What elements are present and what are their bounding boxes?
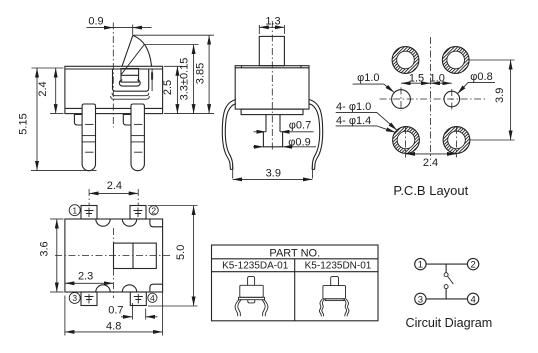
svg-text:3: 3 <box>72 293 77 303</box>
svg-text:4- φ1.0: 4- φ1.0 <box>336 101 371 113</box>
bottom view corner pieces <box>150 219 163 292</box>
dimension 0.9 <box>87 16 152 36</box>
pin 1 tab <box>74 115 82 126</box>
wire bottom stub <box>445 289 447 299</box>
bottom view pad 1 <box>81 206 97 220</box>
part table frame <box>212 245 379 321</box>
dimension 3.6 <box>39 219 64 292</box>
contact lower <box>444 285 448 289</box>
circuit node 4 <box>467 293 478 305</box>
bottom view pad 3 <box>81 292 97 306</box>
circled 1 <box>69 205 80 216</box>
dimension 1.3 <box>259 16 284 35</box>
svg-text:4: 4 <box>470 294 475 305</box>
label φ0.8 <box>457 71 495 94</box>
dimension 2.3 <box>65 271 114 284</box>
small hole right centerline <box>451 89 453 110</box>
lever <box>121 35 152 91</box>
dimension 2.4 <box>37 68 56 114</box>
bottom view bottom edge notches <box>96 285 137 292</box>
svg-text:1.0: 1.0 <box>430 72 445 84</box>
PCB ring 3 vertical centerline <box>405 127 407 158</box>
front view plunger <box>121 69 139 83</box>
extension line lever mid <box>144 44 199 46</box>
bottom view body <box>65 219 163 292</box>
circled 4 <box>148 293 157 303</box>
side view plunger <box>259 36 284 65</box>
side view body <box>235 66 309 109</box>
PCB small hole right φ0.8 <box>444 91 460 107</box>
svg-text:3: 3 <box>418 294 423 305</box>
svg-text:5.0: 5.0 <box>175 245 187 260</box>
svg-text:1.3: 1.3 <box>265 16 280 28</box>
svg-text:3.9: 3.9 <box>494 88 506 103</box>
svg-text:4- φ1.4: 4- φ1.4 <box>336 115 371 127</box>
svg-text:K5-1235DA-01: K5-1235DA-01 <box>222 261 289 272</box>
circled 3 <box>69 292 80 303</box>
dimension φ0.7 <box>254 120 314 132</box>
bottom view inner rect <box>114 243 157 268</box>
svg-text:2.4: 2.4 <box>423 157 438 169</box>
dimension φ0.9 <box>253 137 316 149</box>
front view body <box>65 66 163 113</box>
svg-text:2: 2 <box>470 260 475 271</box>
switch icon DA right leg <box>264 300 268 317</box>
svg-text:P.C.B Layout: P.C.B Layout <box>393 183 468 198</box>
switch lever arm <box>448 276 454 284</box>
PCB horizontal centerline <box>380 98 486 100</box>
dimension 5.0 <box>148 206 198 307</box>
dimension 3.85 <box>195 35 210 113</box>
side view right leg <box>309 100 323 170</box>
pin 2 tab <box>123 115 131 126</box>
extension line lever tip <box>134 34 215 36</box>
svg-text:2: 2 <box>151 206 156 216</box>
side view bottom post <box>263 115 282 147</box>
svg-text:2.3: 2.3 <box>78 271 93 283</box>
bottom view vertical centerline <box>112 228 114 298</box>
side view left leg <box>222 100 236 170</box>
dimension 0.7 <box>108 303 157 320</box>
circuit node 3 <box>415 293 426 305</box>
circuit node 1 <box>415 258 426 270</box>
PCB pad hole ring 2 <box>442 47 469 74</box>
switch icon DN right leg <box>346 299 349 317</box>
svg-text:3.9: 3.9 <box>266 168 281 180</box>
front view recess <box>111 69 150 99</box>
svg-text:0.9: 0.9 <box>88 16 103 28</box>
svg-text:0.7: 0.7 <box>108 304 123 316</box>
wire top stub <box>445 264 447 273</box>
svg-text:3.85: 3.85 <box>195 63 207 84</box>
PCB vertical centerline <box>430 37 432 160</box>
PCB pad hole ring 1 <box>392 47 419 74</box>
label φ1.0 <box>353 72 395 92</box>
pin 1 <box>82 104 95 171</box>
bottom view horizontal centerline <box>55 255 172 257</box>
PCB small hole left φ1.0 <box>392 90 411 109</box>
svg-text:2.5: 2.5 <box>162 80 174 95</box>
dimension 4.8 <box>65 292 163 336</box>
switch icon DA base <box>238 297 264 299</box>
contact upper <box>444 273 448 277</box>
switch icon DN left leg <box>319 299 322 317</box>
side view base plate <box>241 109 303 115</box>
dimension 1.5 <box>401 72 431 84</box>
switch icon DA left leg <box>235 300 239 317</box>
svg-text:4.8: 4.8 <box>106 321 121 333</box>
svg-text:1: 1 <box>418 260 423 271</box>
svg-text:5.15: 5.15 <box>18 113 30 134</box>
dimension 2.4 PCB <box>406 154 457 169</box>
dimension 3.9 PCB <box>469 60 515 140</box>
svg-text:φ0.7: φ0.7 <box>289 120 311 132</box>
label 4-φ1.4 <box>336 115 396 133</box>
dimension 5.15 <box>18 68 97 170</box>
switch icon DN body <box>323 286 346 299</box>
dimension 2.5 <box>162 66 214 113</box>
circuit node 2 <box>467 258 478 270</box>
label 4-φ1.0 <box>336 101 397 130</box>
svg-text:1.5: 1.5 <box>409 72 424 84</box>
bottom view pad 2 <box>130 206 146 220</box>
svg-text:3.3±0.15: 3.3±0.15 <box>179 58 191 101</box>
switch icon DN base <box>325 299 344 301</box>
switch icon DA body <box>240 285 263 297</box>
front view centerline <box>112 23 114 128</box>
circled 2 <box>149 206 158 216</box>
switch icon DN plunger <box>331 276 339 285</box>
svg-text:PART NO.: PART NO. <box>269 248 320 260</box>
svg-text:2.4: 2.4 <box>107 180 122 192</box>
switch icon DA plunger <box>248 276 255 285</box>
dimension 3.9 side view <box>233 165 313 180</box>
front view plunger slot <box>119 80 140 86</box>
svg-text:K5-1235DN-01: K5-1235DN-01 <box>305 261 372 272</box>
bottom view top edge notches <box>96 219 137 226</box>
wire 3-4 <box>426 298 467 300</box>
svg-text:Circuit Diagram: Circuit Diagram <box>406 316 493 330</box>
svg-text:1: 1 <box>72 205 77 215</box>
PCB pad hole ring 3 <box>393 127 420 154</box>
dimension 1.0 <box>430 72 452 84</box>
dimension 2.4 bottom view <box>89 180 138 205</box>
svg-text:4: 4 <box>150 293 155 303</box>
svg-text:2.4: 2.4 <box>37 81 49 96</box>
small hole left centerline <box>400 88 402 112</box>
switch icon DA bottom tab <box>248 300 255 303</box>
dimension 3.3±0.15 <box>179 45 194 114</box>
svg-text:3.6: 3.6 <box>39 241 51 256</box>
PCB pad hole ring 4 <box>443 127 470 154</box>
side view centerline <box>271 21 273 152</box>
bottom view pad 4 <box>130 292 146 306</box>
svg-text:φ1.0: φ1.0 <box>357 72 379 84</box>
pin 2 <box>131 104 144 171</box>
wire 1-2 <box>426 263 467 265</box>
PCB ring 4 vertical centerline <box>456 127 458 158</box>
svg-text:φ0.8: φ0.8 <box>470 71 492 83</box>
